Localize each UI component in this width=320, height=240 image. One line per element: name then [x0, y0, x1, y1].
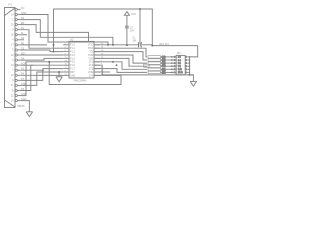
- svg-text:10: 10: [11, 99, 14, 102]
- svg-text:14: 14: [11, 13, 14, 16]
- svg-text:U2: U2: [70, 37, 74, 41]
- svg-text:8: 8: [12, 79, 14, 82]
- svg-text:1 2: 1 2: [178, 57, 181, 59]
- svg-text:15: 15: [11, 23, 14, 26]
- svg-text:104: 104: [133, 40, 138, 42]
- svg-text:16: 16: [11, 34, 14, 37]
- svg-text:6: 6: [12, 59, 14, 62]
- svg-text:DB25: DB25: [18, 104, 25, 108]
- svg-text:C2: C2: [130, 27, 134, 29]
- svg-text:17: 17: [11, 44, 14, 47]
- svg-text:472: 472: [162, 71, 167, 74]
- svg-text:RP1 472: RP1 472: [160, 43, 170, 46]
- svg-text:22: 22: [11, 94, 14, 97]
- svg-text:JP1: JP1: [177, 52, 182, 55]
- svg-text:19: 19: [11, 64, 14, 67]
- svg-text:4: 4: [12, 39, 14, 42]
- svg-text:VCC: VCC: [131, 13, 136, 16]
- svg-text:7: 7: [12, 69, 14, 72]
- svg-text:20: 20: [11, 74, 14, 77]
- svg-text:9: 9: [12, 89, 14, 92]
- svg-text:18: 18: [11, 54, 14, 57]
- svg-text:7 8: 7 8: [178, 66, 181, 68]
- svg-text:104: 104: [130, 30, 135, 32]
- svg-text:GND: GND: [70, 74, 76, 77]
- svg-text:9 10: 9 10: [178, 69, 182, 71]
- svg-text:3: 3: [12, 28, 14, 31]
- svg-text:C1: C1: [133, 37, 137, 39]
- svg-text:21: 21: [11, 84, 14, 87]
- svg-text:5: 5: [12, 49, 14, 52]
- svg-text:P1: P1: [9, 3, 13, 7]
- svg-text:11 12: 11 12: [178, 72, 183, 74]
- svg-text:2Y4: 2Y4: [89, 74, 94, 77]
- svg-text:2: 2: [12, 18, 14, 21]
- svg-text:NC: NC: [21, 7, 25, 10]
- svg-text:5 6: 5 6: [178, 63, 181, 65]
- svg-text:74HC244N: 74HC244N: [73, 78, 86, 82]
- svg-text:3 4: 3 4: [178, 60, 181, 62]
